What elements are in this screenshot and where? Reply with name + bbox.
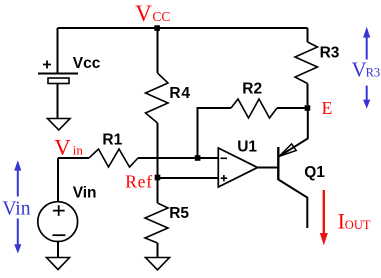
svg-text:R1: R1 (102, 132, 122, 149)
svg-text:Vin: Vin (2, 199, 30, 220)
svg-text:Vin: Vin (73, 185, 97, 202)
svg-text:R3: R3 (366, 66, 381, 80)
svg-text:Ref: Ref (125, 171, 153, 191)
svg-text:in: in (73, 142, 84, 157)
svg-text:E: E (322, 98, 333, 118)
svg-text:U1: U1 (237, 139, 257, 156)
svg-text:V: V (135, 1, 152, 26)
svg-text:V: V (54, 134, 70, 159)
svg-text:Vcc: Vcc (73, 55, 101, 72)
svg-text:V: V (352, 58, 367, 82)
svg-text:R2: R2 (242, 80, 262, 97)
svg-text:R3: R3 (320, 45, 340, 62)
svg-text:CC: CC (152, 9, 170, 24)
svg-text:OUT: OUT (345, 218, 371, 232)
svg-text:R5: R5 (169, 205, 189, 222)
svg-text:R4: R4 (169, 85, 190, 102)
svg-text:Q1: Q1 (304, 164, 325, 181)
